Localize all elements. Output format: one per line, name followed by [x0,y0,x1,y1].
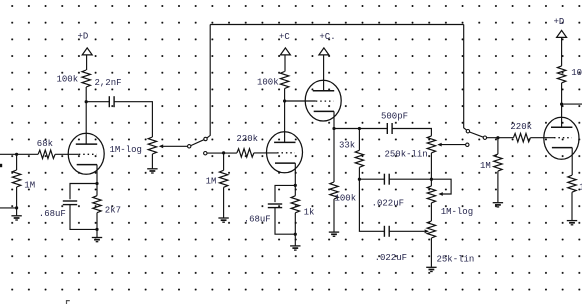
wire 68k to V1 grid [55,153,79,155]
resistor R7 100k (plate load V2) [257,72,289,89]
wire 220k to V2 grid [254,152,277,154]
resistor R9 100k (cathode V3) [330,182,356,203]
svg-text:100k: 100k [257,77,279,87]
power +C supply V3 [319,32,336,55]
switch S1 lower contact [204,152,207,155]
svg-text:1k: 1k [304,208,315,218]
wire V2 plate to V3 grid [285,100,316,102]
svg-text:+D: +D [78,32,89,42]
svg-text:1M: 1M [480,161,491,171]
wire S1 lower contact to grid network [207,152,237,154]
wire output to right edge [562,103,582,105]
resistor R10 33k (slope) [339,141,364,168]
triode V2 [267,132,303,173]
potentiometer VR2 250k-lin treble [385,136,436,160]
svg-text:1M: 1M [24,180,35,190]
wire .022uF to bass wiper [389,230,424,232]
wire 1M bottom lead [16,187,18,215]
wire plate node to cap [86,101,109,103]
svg-text:.022uF: .022uF [375,253,407,263]
switch S2 pole contact [483,136,486,139]
wire cathode node to 1k [294,185,296,195]
switch S2 upper contact [466,130,469,133]
wire 1M top lead [16,154,18,170]
wiper VR2 arrow [437,143,465,147]
svg-text:500pF: 500pF [381,111,408,121]
wire plate node to 100k [85,87,87,102]
junction input/grid-leak [15,153,18,156]
wire bypass cap to bottom [70,205,97,230]
wire bypass cap to bottom [275,208,295,235]
svg-text:33k: 33k [339,141,355,151]
wire V4 cathode lead [571,148,573,176]
wire bypass riser left [207,25,210,138]
wire bypass riser right [464,25,467,130]
wire bass-mid feed [359,178,384,180]
wire cathode node to 2k7 [96,184,98,196]
svg-text:1M: 1M [206,176,217,186]
wire 100k to ground [333,199,335,232]
resistor R8 1k (cathode V2) [291,196,314,218]
junction output grid node [496,136,499,139]
ground V4 cathode [567,221,577,225]
resistor R3 100k (plate load V1) [57,70,91,87]
wire 500pF to treble pot [392,129,431,136]
wire mid pot to bass pot [430,203,432,221]
capacitor C5 .022uF (mid) [372,174,404,209]
potentiometer VR1 1M-log volume [110,137,157,155]
switch S1 blade [191,140,204,146]
wire V3 cathode lead [333,111,335,128]
wiper VR3 arrow [438,192,442,196]
capacitor C3 .68uF (cathode bypass V2) [244,204,283,225]
ground V1 cathode [92,238,102,242]
wire lower branch [359,179,384,231]
potentiometer VR4 25k-lin bass [427,221,474,265]
svg-text:+D: +D [554,17,565,27]
capacitor C4 500pF (treble) [381,111,408,134]
wire 100k to supply [561,37,563,66]
switch S2 lower contact [466,143,469,146]
svg-text:250k-lin: 250k-lin [385,149,428,159]
junction cathode network bottom 2 [294,233,297,236]
junction V3 cathode node [332,127,335,130]
power +C supply stage2 [279,32,290,55]
svg-text:100k: 100k [571,68,582,78]
svg-text:.022uF: .022uF [372,199,404,209]
junction mid-top crossing [430,178,433,181]
junction 33k bottom [358,178,361,181]
node V2 plate [283,99,286,102]
ground V3 cathode resistor [329,232,339,236]
ground output grid leak [493,203,503,207]
wire V3 plate to supply [323,55,325,91]
ground bass pot [426,267,436,271]
wire cap to volume pot [114,102,152,137]
power +D supply stage1 [78,32,93,55]
svg-text:220k: 220k [236,134,258,144]
wire cathode node to bypass cap [275,185,295,202]
wire V1 cathode lead [96,165,98,184]
svg-text:.68uF: .68uF [244,215,271,225]
junction V1 cathode [95,182,98,185]
wire 1k to ground [571,192,573,220]
wire 220k to V4 grid [530,137,554,139]
wire tone stack top [334,128,387,130]
wire 33k bottom lead [358,167,360,179]
node input jack stub at left edge [0,164,2,167]
wire 1k to ground [294,213,296,246]
junction ground return [15,206,18,209]
wire bypass top [210,24,464,26]
wire 1M top lead [497,138,499,154]
node stray glyph bottom edge [67,300,70,304]
wire plate node to 100k [284,89,286,102]
wire V2 cathode lead [294,163,296,185]
capacitor C6 .022uF (bass) [375,226,407,263]
junction cathode network bottom [95,228,98,231]
wire 100k to supply [284,55,286,72]
svg-text:.68uF: .68uF [39,209,66,219]
node V1 plate [85,100,88,103]
junction V2 cathode [294,184,297,187]
ground V2 cathode [290,246,300,250]
resistor R6 220k (grid stopper V2) [236,134,258,157]
svg-text:68k: 68k [37,139,53,149]
wiper VR4 arrow [425,229,429,233]
power +D supply output [554,17,567,37]
potentiometer VR3 1M-log mid [427,186,473,217]
wire cathode node to 100k [333,129,335,183]
ground stage2 grid leak [218,218,228,222]
junction 33k top [358,127,361,130]
wire .022uF to mid wiper loop [389,179,451,194]
triode V3 cathode follower [305,80,341,121]
switch S1 upper contact [204,137,207,140]
resistor R13 100k (plate load V4) [557,66,582,83]
wire plate node to 100k [561,83,563,104]
resistor R4 2k7 (cathode V1) [93,196,121,216]
node V4 plate [560,103,563,106]
wire 33k top lead [358,129,360,151]
switch S2 blade [470,132,484,137]
wire input signal from left edge [0,153,38,155]
svg-text:2k7: 2k7 [105,205,121,215]
wire bass pot to ground [430,238,432,267]
resistor R14 1k (cathode V4) [568,175,582,192]
svg-text:2,2nF: 2,2nF [95,78,122,88]
svg-text:1M-log: 1M-log [110,145,142,155]
wire 1M to ground [223,187,225,217]
svg-text:100k: 100k [335,193,357,203]
capacitor C2 .68uF (cathode bypass V1) [39,201,77,219]
junction 220k/1M grid node [222,151,225,154]
ground input [11,216,21,220]
wire 1M top lead [223,153,225,170]
resistor R5 1M (grid leak V2) [206,170,228,187]
wire 100k to supply [86,55,88,70]
wire V1 plate lead [85,102,87,144]
wire treble pot to mid pot [430,153,432,186]
triode V4 [544,117,579,159]
wire V4 plate lead [561,104,563,127]
wiper VR1 arrow [159,144,188,148]
wire 1M to ground [497,171,499,202]
wire 2k7 to ground [96,213,98,237]
wire input ground return from left edge [0,207,17,209]
wire V2 plate lead [284,101,286,142]
wire volume pot to ground [151,154,153,168]
triode V1 [68,133,104,174]
svg-text:100k: 100k [57,75,79,85]
capacitor C1 2,2nF [95,78,122,107]
svg-text:1M-log: 1M-log [441,207,473,217]
resistor R1 1M (grid leak) [12,170,35,190]
resistor R11 1M (grid leak V4) [480,154,502,171]
svg-text:+C: +C [279,32,290,42]
wire cathode node to bypass cap [70,184,97,200]
switch S1 pole contact [188,145,191,148]
wire S2 pole to grid network [487,137,514,139]
ground volume pot [147,169,157,173]
svg-text:25k-lin: 25k-lin [437,255,475,265]
resistor R12 220k (grid stopper V4) [510,122,532,142]
resistor R2 68k (grid stopper) [37,139,55,159]
svg-text:+C.: +C. [319,32,335,42]
svg-text:220k: 220k [510,122,532,132]
